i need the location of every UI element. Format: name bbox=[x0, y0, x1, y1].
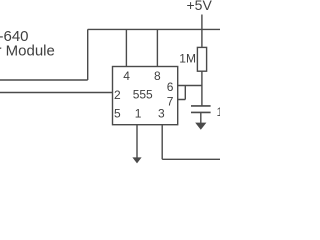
capacitor C1 bbox=[191, 106, 211, 113]
svg-text:4: 4 bbox=[123, 69, 130, 83]
svg-text:1: 1 bbox=[217, 105, 221, 119]
svg-text:r Module: r Module bbox=[0, 43, 55, 60]
wire pin 1 to ground bbox=[136, 125, 138, 158]
svg-text:2: 2 bbox=[114, 88, 121, 102]
svg-text:3: 3 bbox=[158, 107, 165, 121]
svg-text:555: 555 bbox=[133, 88, 153, 102]
wire module supply drop bbox=[0, 29, 88, 80]
svg-text:8: 8 bbox=[154, 69, 161, 83]
svg-text:7: 7 bbox=[167, 95, 174, 109]
svg-text:5: 5 bbox=[114, 107, 121, 121]
wire resistor bottom to capacitor bbox=[201, 71, 203, 106]
wire pin 7 bbox=[178, 86, 186, 100]
svg-text:6: 6 bbox=[167, 80, 174, 94]
op-amp U1 555 timer box bbox=[113, 67, 178, 125]
svg-text:1M: 1M bbox=[179, 52, 196, 66]
wire trigger from module to pin 2 bbox=[0, 92, 113, 94]
wire pin 6 bbox=[178, 85, 202, 87]
wire +5V rail bbox=[88, 28, 220, 30]
wire pin 3 output bbox=[162, 125, 220, 160]
wire capacitor to ground bbox=[200, 112, 202, 123]
svg-text:1: 1 bbox=[135, 107, 142, 121]
ground under capacitor bbox=[195, 123, 206, 130]
wire pin 8 to rail bbox=[156, 29, 158, 66]
wire +5V supply lead bbox=[201, 15, 203, 48]
wire pin 4 to rail bbox=[125, 29, 127, 66]
svg-text:+5V: +5V bbox=[187, 0, 213, 13]
ground under pin 1 bbox=[132, 157, 141, 163]
resistor R1 1M bbox=[197, 47, 206, 71]
